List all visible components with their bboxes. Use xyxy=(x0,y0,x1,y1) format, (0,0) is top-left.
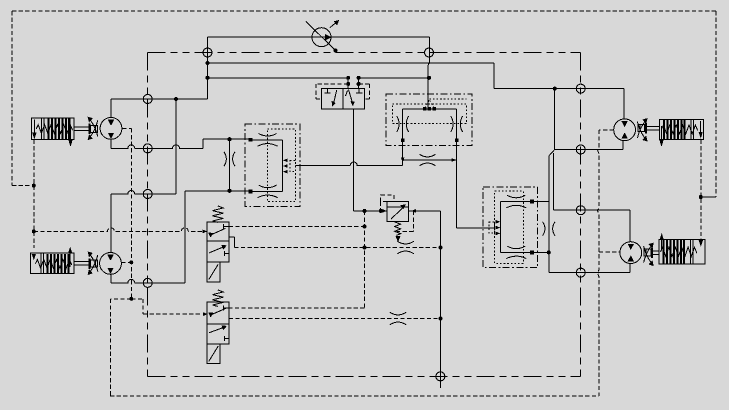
wire motor2 bottom xyxy=(111,274,185,283)
restrictor RS1 xyxy=(420,154,436,165)
pump P1 variable displacement xyxy=(306,20,339,51)
crossing circle X3 phantom line over motor M1 top line xyxy=(143,95,152,104)
junction node A6 valve U1 left pilot tap xyxy=(346,82,350,86)
wire motor2 top xyxy=(110,194,112,253)
motor M1 xyxy=(100,117,122,139)
restrictor RS3 xyxy=(390,312,406,324)
components get added below xyxy=(31,20,705,364)
crossing circle X8 phantom line over motor M3 bottom line xyxy=(576,145,585,154)
crossing circle X6 phantom line over motor M2 bottom line xyxy=(143,278,152,287)
junction node A17 valve V3 bottom tee xyxy=(547,250,551,254)
wire motor4 bottom xyxy=(629,264,631,273)
junction node A5 valve U1 right stub xyxy=(357,76,361,80)
motor M2 xyxy=(100,253,122,275)
brake cylinder B4 xyxy=(644,233,705,266)
wire valveG stubs xyxy=(348,78,358,89)
pilot L2 lower drain xyxy=(229,318,441,320)
junction node A23 orifice column top tee xyxy=(228,137,232,141)
crossing circle X7 phantom line over motor M3 top line xyxy=(576,84,585,93)
wire x176 riser xyxy=(111,99,176,194)
crossing circle X1 pilot line over supply riser xyxy=(203,48,212,57)
brake cylinder B2 xyxy=(31,247,98,275)
valve V2 flow control top xyxy=(386,94,472,163)
wire motor3 bottom xyxy=(555,141,624,150)
junction node A13 valve L1 drain tee xyxy=(363,225,367,229)
wire valveH bottom to M2 xyxy=(185,191,250,283)
pilot valveJ vent xyxy=(397,211,414,232)
wire valveK ports xyxy=(532,201,549,252)
wire jog to valveK column xyxy=(549,150,630,273)
wire to motor4 top xyxy=(553,153,630,241)
valve L2 pressure reducing xyxy=(203,290,229,364)
valve U1 directional 2-position xyxy=(316,84,370,109)
pilot motor3 drain xyxy=(598,130,614,396)
pilot line to L1 xyxy=(34,228,204,231)
wire L1 step port xyxy=(229,237,235,247)
junction node A10 right supply tee xyxy=(553,87,557,91)
wire valveI right leg xyxy=(457,109,495,228)
junction node A20 brake pilot / boundary tee xyxy=(32,184,36,188)
motor M3 xyxy=(614,119,636,141)
crossing circle X11 phantom line over drain column xyxy=(436,372,445,381)
crossing circle X5 phantom line over motor M2 top line xyxy=(143,190,152,199)
wire mid supply y62 xyxy=(208,63,624,119)
valve L1 pressure reducing xyxy=(203,206,229,282)
crossing circle X2 pilot line over valve V2 riser xyxy=(425,48,434,57)
junction node A4 valve U1 left stub xyxy=(346,76,350,80)
junction node A24 orifice column bottom tee xyxy=(228,189,232,193)
junction node A18 motor M2 case drain tee xyxy=(129,260,133,264)
pilot motor4 branch xyxy=(599,251,620,253)
wire valveJ right to drain column xyxy=(409,211,441,388)
wire y78 pilot supply xyxy=(208,77,430,79)
pilot motor1 case drain xyxy=(122,128,131,298)
wire valveG bottom port xyxy=(354,109,387,211)
wire valveI lower cross xyxy=(403,159,457,161)
pilot motor2 case drain xyxy=(121,261,131,263)
junction node A12 valve RV1 pilot-box tap xyxy=(379,209,383,213)
junction node A21 brake pilot / valve L1 tee xyxy=(32,229,36,233)
wire top supply xyxy=(208,36,430,38)
junction node A1 supply tee xyxy=(206,61,210,65)
valve V1 flow control left xyxy=(245,124,300,206)
pilot drain branches xyxy=(111,299,203,396)
wire x554 riser xyxy=(554,89,556,150)
junction node A7 valve U1 right pilot tap xyxy=(357,82,361,86)
motor M4 xyxy=(620,242,642,264)
wire valveH output xyxy=(295,162,402,165)
crossing circle X9 phantom line over motor M4 top line xyxy=(576,206,585,215)
junction node A22 right brake pilot / boundary tee xyxy=(699,195,703,199)
wire motor1 top xyxy=(110,99,112,117)
brake cylinder B1 xyxy=(32,117,98,147)
valve RV1 relief xyxy=(381,195,416,243)
crossing circle X4 phantom line over motor M1 bottom line xyxy=(143,144,152,153)
valve V3 flow control right xyxy=(483,187,555,268)
wire motor1 bottom with hops xyxy=(111,139,250,148)
junction node A3 motor M1 top tee xyxy=(174,97,178,101)
wire x429 down to valve I xyxy=(428,37,429,109)
junction node A15 drain column tap upper xyxy=(439,246,443,250)
pilot brake right column xyxy=(701,140,716,240)
junction node A11 valve RV1 inlet pilot tap xyxy=(363,209,367,213)
junction node A2 pilot-supply tee xyxy=(206,76,210,80)
junction node A16 drain column tap lower xyxy=(439,317,443,321)
pilot valveJ drain column xyxy=(229,211,365,308)
wire orifice column left xyxy=(229,139,231,191)
pilot L1 upper port xyxy=(229,226,365,228)
MAIN-SOLID-LINES xyxy=(111,37,630,388)
restrictor RS4 orifice column left xyxy=(224,152,235,166)
junction node A8 valve V2 riser tee xyxy=(427,76,431,80)
junction node A19 case drain branch tee xyxy=(129,297,133,301)
crossing circle X10 phantom line over motor M4 bottom line xyxy=(576,268,585,277)
junction node A9 pump control tap xyxy=(334,49,338,53)
wire valveI left leg xyxy=(402,109,404,166)
wire x207.5 down xyxy=(111,37,208,99)
junction node A14 drain line tee xyxy=(363,246,367,250)
restrictor RS2 xyxy=(397,241,413,253)
LONG-DASH-LOOP pilot loop xyxy=(148,53,581,377)
PILOT-DASHED-LINES xyxy=(34,128,716,395)
pilot brake line left xyxy=(33,140,35,249)
brake cylinder B3 xyxy=(637,118,703,147)
pilot drain restrictor line xyxy=(234,247,440,249)
